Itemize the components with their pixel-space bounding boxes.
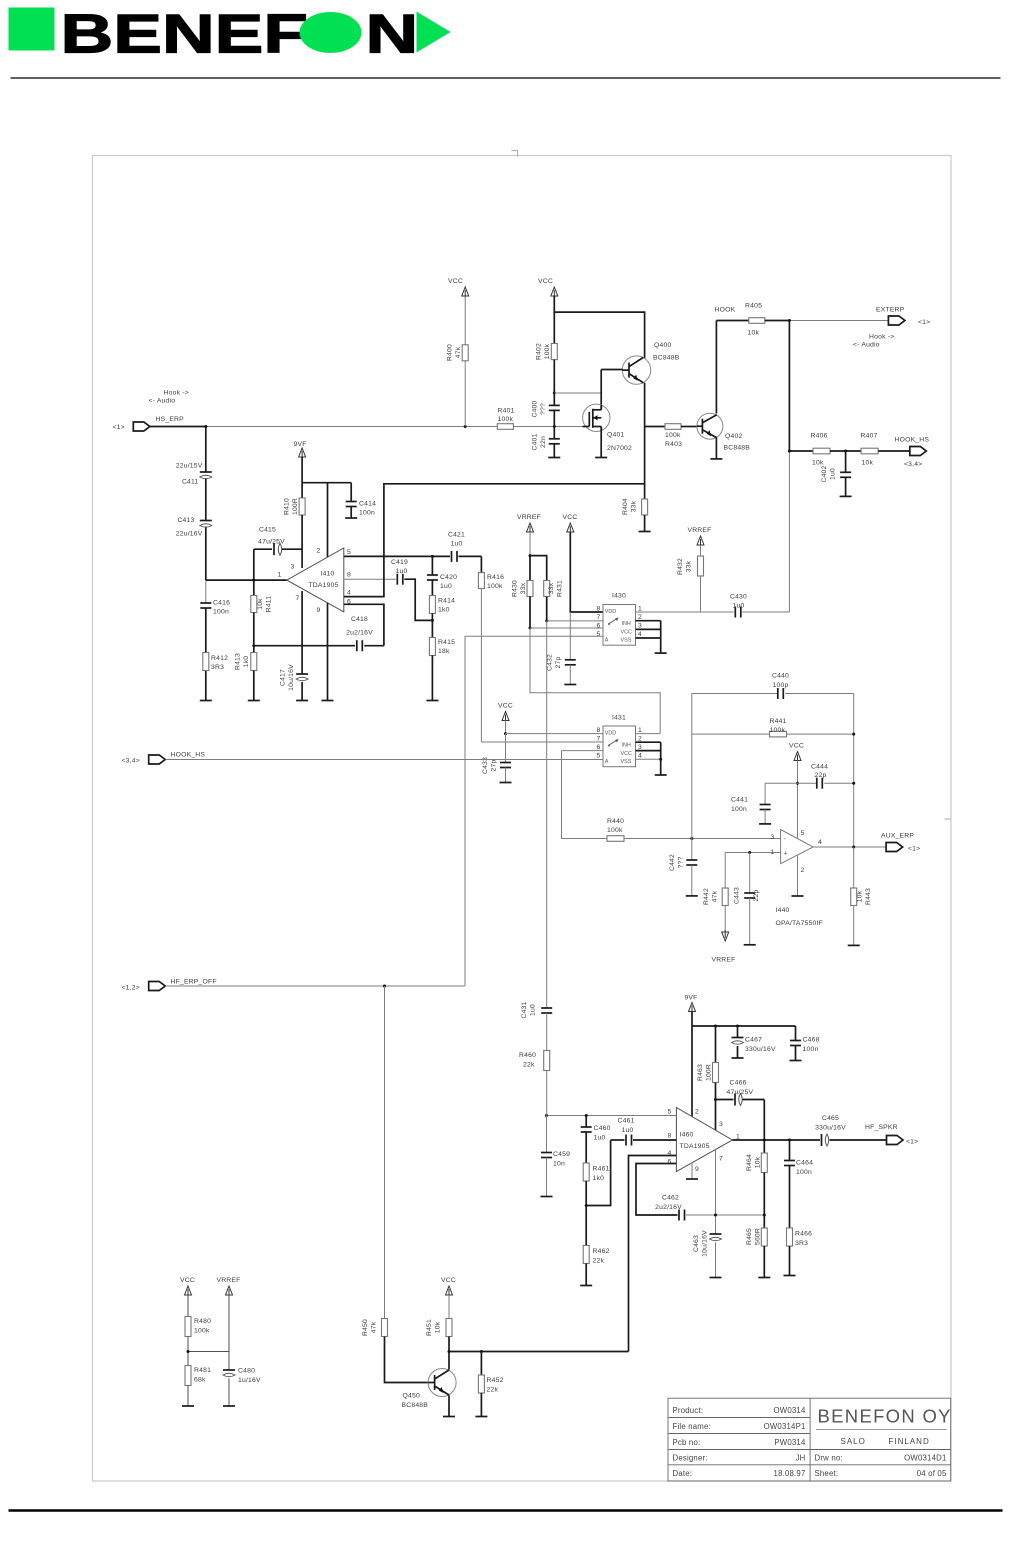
svg-text:SALO: SALO bbox=[841, 1437, 866, 1446]
svg-text:VCC: VCC bbox=[180, 1277, 195, 1284]
svg-text:C465: C465 bbox=[822, 1115, 839, 1122]
capacitor C464 100n bbox=[789, 1140, 791, 1161]
svg-text:C417: C417 bbox=[280, 669, 287, 686]
capacitor C441 100n bbox=[764, 783, 766, 804]
svg-text:100n: 100n bbox=[803, 1046, 819, 1053]
svg-text:C432: C432 bbox=[547, 654, 554, 671]
svg-text:R465: R465 bbox=[746, 1228, 753, 1245]
resistor R401 100k bbox=[497, 424, 513, 430]
svg-text:R462: R462 bbox=[593, 1248, 610, 1255]
analog switch I431 bbox=[603, 726, 636, 767]
svg-text:3R3: 3R3 bbox=[795, 1240, 808, 1247]
svg-text:5: 5 bbox=[801, 830, 805, 837]
svg-text:1u0: 1u0 bbox=[622, 1127, 634, 1134]
svg-text:C418: C418 bbox=[351, 616, 368, 623]
wire 9VF column to I460 pin2 bbox=[691, 1012, 693, 1117]
capacitor C420 1u0 bbox=[431, 556, 433, 575]
svg-text:8: 8 bbox=[597, 727, 601, 734]
wire R480/C480 row bbox=[188, 1351, 229, 1353]
svg-text:560R: 560R bbox=[755, 1228, 762, 1245]
wire jog to R431 bbox=[530, 556, 547, 581]
svg-text:Product:: Product: bbox=[673, 1406, 704, 1415]
svg-text:Hook ->: Hook -> bbox=[869, 334, 894, 341]
svg-text:C442: C442 bbox=[669, 854, 676, 871]
node R414/R415 bbox=[431, 614, 433, 638]
svg-text:R411: R411 bbox=[266, 596, 273, 613]
svg-text:R400: R400 bbox=[447, 344, 454, 361]
svg-text:C401: C401 bbox=[532, 433, 539, 450]
ground T-bar Q402 bbox=[710, 458, 722, 460]
svg-text:I430: I430 bbox=[612, 593, 626, 600]
svg-text:C443: C443 bbox=[734, 887, 741, 904]
wire R431 node down to C431 column bbox=[545, 619, 548, 622]
resistor R411 10k bbox=[253, 580, 255, 595]
wire Q401 source to ground bbox=[600, 428, 602, 458]
svg-text:330u/16V: 330u/16V bbox=[815, 1125, 846, 1132]
wire R450 to Q450 base bbox=[385, 1337, 429, 1383]
svg-text:33k: 33k bbox=[631, 500, 638, 512]
ground T-bar C401 bbox=[548, 457, 560, 459]
svg-text:-: - bbox=[784, 836, 787, 843]
svg-text:<- Audio: <- Audio bbox=[853, 342, 880, 349]
svg-text:1: 1 bbox=[638, 606, 642, 613]
wire R407 to HOOK_HS flag bbox=[878, 450, 910, 452]
svg-text:33k: 33k bbox=[686, 560, 693, 572]
svg-text:Q401: Q401 bbox=[607, 432, 624, 439]
svg-text:3: 3 bbox=[638, 623, 642, 630]
transistor Q400 BC848B bbox=[622, 356, 650, 384]
resistor R400 47k bbox=[464, 296, 466, 345]
svg-text:R466: R466 bbox=[795, 1231, 812, 1238]
wire I431 pin1 up to R430 node bbox=[636, 733, 661, 735]
wire VCC column to I430 VDD bbox=[570, 532, 603, 612]
svg-text:VCC: VCC bbox=[621, 629, 632, 635]
resistor R416 100k bbox=[478, 573, 484, 589]
svg-text:<- Audio: <- Audio bbox=[149, 398, 176, 405]
power VRREF down (R442) bbox=[722, 932, 729, 941]
svg-text:VSS: VSS bbox=[621, 638, 632, 644]
ground T-bar C417 bbox=[296, 700, 308, 702]
wire I430 pin5 from HF_ERP_OFF column bbox=[465, 635, 603, 637]
ground T-bar R452 bbox=[475, 1416, 487, 1418]
svg-text:3: 3 bbox=[291, 564, 295, 571]
svg-text:2u2/16V: 2u2/16V bbox=[346, 630, 373, 637]
svg-text:4: 4 bbox=[638, 753, 642, 760]
svg-text:C414: C414 bbox=[359, 501, 376, 508]
wire I430 pin7 from R431 bbox=[547, 620, 603, 622]
svg-text:A: A bbox=[605, 638, 609, 644]
svg-text:R431: R431 bbox=[557, 580, 564, 597]
svg-text:2: 2 bbox=[317, 548, 321, 555]
wire R402 node to Q401 drain bbox=[554, 392, 601, 394]
svg-text:1u0: 1u0 bbox=[440, 583, 452, 590]
capacitor C402 1u0 bbox=[845, 451, 847, 472]
node C402 bbox=[830, 450, 861, 452]
svg-text:R451: R451 bbox=[426, 1319, 433, 1336]
wire VCC to I431 VDD bbox=[505, 721, 507, 734]
svg-text:OW0314P1: OW0314P1 bbox=[764, 1422, 806, 1431]
wire I431 pins 2,3 to ground bbox=[636, 741, 661, 743]
wire VRREF to divider jog bbox=[529, 532, 531, 556]
transistor Q450 BC848B bbox=[428, 1369, 456, 1397]
svg-text:C411: C411 bbox=[182, 479, 199, 486]
ground T-bar C480 bbox=[223, 1405, 235, 1407]
svg-text:R480: R480 bbox=[194, 1318, 211, 1325]
resistor R407 10k bbox=[861, 448, 878, 454]
svg-text:47k: 47k bbox=[455, 346, 462, 358]
svg-text:100p: 100p bbox=[773, 682, 789, 689]
svg-text:33x: 33x bbox=[520, 582, 527, 594]
svg-text:1: 1 bbox=[638, 727, 642, 734]
svg-text:R461: R461 bbox=[593, 1166, 610, 1173]
svg-text:BC848B: BC848B bbox=[402, 1402, 429, 1409]
svg-text:HOOK_HS: HOOK_HS bbox=[895, 437, 930, 444]
wire I460 pin7 column bbox=[715, 1150, 717, 1235]
wire I460 pin4 to Q450 row bbox=[629, 1156, 677, 1352]
resistor R432 33k bbox=[700, 545, 702, 556]
svg-text:VCC: VCC bbox=[448, 278, 463, 285]
wire C461 drop to R461 node bbox=[586, 1140, 610, 1206]
svg-text:5: 5 bbox=[347, 549, 351, 556]
svg-text:TDA1905: TDA1905 bbox=[308, 582, 338, 589]
ground T-bar (input column) bbox=[200, 700, 212, 702]
resistor R443 10k bbox=[853, 847, 855, 888]
svg-text:10u/16V: 10u/16V bbox=[702, 1230, 709, 1257]
svg-text:10k: 10k bbox=[857, 890, 864, 902]
svg-text:TDA1905: TDA1905 bbox=[680, 1143, 710, 1150]
svg-text:100k: 100k bbox=[607, 827, 623, 834]
svg-text:10k: 10k bbox=[812, 460, 824, 467]
Benefon logo green triangle bbox=[417, 12, 451, 53]
svg-text:<3,4>: <3,4> bbox=[122, 758, 140, 765]
svg-text:R442: R442 bbox=[703, 888, 710, 905]
svg-text:R406: R406 bbox=[811, 433, 828, 440]
resistor R440 100k bbox=[562, 838, 608, 840]
svg-text:22k: 22k bbox=[487, 1387, 499, 1394]
resistor R402 100k bbox=[553, 312, 555, 343]
wire R430 node to I431 pin1 bbox=[529, 627, 532, 630]
svg-text:<1>: <1> bbox=[918, 319, 930, 326]
svg-text:BC848B: BC848B bbox=[724, 445, 751, 452]
svg-text:7: 7 bbox=[597, 614, 601, 621]
svg-text:C466: C466 bbox=[730, 1080, 747, 1087]
capacitor C442 ??? bbox=[691, 839, 693, 861]
svg-text:7: 7 bbox=[597, 736, 601, 743]
resistor R464 10k bbox=[763, 1140, 765, 1153]
svg-text:3: 3 bbox=[719, 1121, 723, 1128]
svg-text:INH: INH bbox=[622, 743, 631, 749]
svg-text:File name:: File name: bbox=[673, 1422, 711, 1431]
svg-text:EXTERP: EXTERP bbox=[876, 307, 905, 314]
wire I460 output row bbox=[732, 1139, 820, 1141]
svg-text:I440: I440 bbox=[776, 907, 790, 914]
title block bbox=[668, 1398, 951, 1481]
resistor R430 33x bbox=[529, 556, 531, 581]
capacitor C468 100n bbox=[795, 1026, 797, 1041]
svg-text:Pcb no:: Pcb no: bbox=[673, 1438, 701, 1447]
port EXTERP <1> bbox=[888, 316, 905, 325]
resistor R465 560R bbox=[761, 1228, 767, 1246]
ground T-bar pin9 bbox=[322, 700, 334, 702]
svg-text:R460: R460 bbox=[519, 1052, 536, 1059]
svg-text:100k: 100k bbox=[770, 727, 786, 734]
svg-text:C430: C430 bbox=[730, 594, 747, 601]
svg-text:R441: R441 bbox=[770, 718, 787, 725]
svg-text:INH: INH bbox=[622, 621, 631, 627]
wire I440 pin1 row bbox=[725, 852, 780, 854]
svg-text:Hook ->: Hook -> bbox=[164, 390, 189, 397]
wire I440 output row bbox=[813, 846, 886, 848]
capacitor C418 2u2/16V bbox=[254, 645, 355, 647]
svg-text:C431: C431 bbox=[521, 1001, 528, 1018]
svg-text:FINLAND: FINLAND bbox=[889, 1437, 930, 1446]
wire HF_ERP_OFF riser bbox=[464, 636, 466, 986]
resistor R451 10k bbox=[448, 1295, 450, 1319]
svg-text:100n: 100n bbox=[213, 609, 229, 616]
svg-text:Q400: Q400 bbox=[654, 342, 671, 349]
svg-text:VRREF: VRREF bbox=[687, 527, 711, 534]
svg-text:2u2/16V: 2u2/16V bbox=[655, 1204, 682, 1211]
ground T-bar R404 bbox=[639, 531, 651, 533]
svg-text:1u0: 1u0 bbox=[830, 468, 837, 480]
resistor R404 33k bbox=[644, 427, 646, 500]
wire I410 pin4 to R404 rail bbox=[344, 484, 645, 597]
svg-text:Drw no:: Drw no: bbox=[815, 1454, 843, 1463]
open T-bar C441 bbox=[759, 823, 771, 825]
ground T-bar R466 bbox=[784, 1275, 796, 1277]
svg-text:47u/25V: 47u/25V bbox=[258, 539, 285, 546]
open T-bar R443 bbox=[848, 944, 860, 946]
wire VRREF column bbox=[228, 1295, 230, 1370]
wire HS_ERP row bbox=[150, 426, 206, 428]
wire C421 to R416 bbox=[480, 556, 482, 572]
wire feedback right column bbox=[853, 694, 855, 848]
wire R416 down to I431 pin7 bbox=[480, 589, 482, 743]
svg-text:100n: 100n bbox=[359, 510, 375, 517]
open T-bar I440 pin2 bbox=[792, 895, 804, 897]
open T-bar C442 bbox=[686, 895, 698, 897]
svg-text:OW0314: OW0314 bbox=[774, 1406, 806, 1415]
svg-text:8: 8 bbox=[597, 606, 601, 613]
svg-text:C415: C415 bbox=[259, 527, 276, 534]
svg-text:VDD: VDD bbox=[605, 731, 616, 737]
svg-text:22p: 22p bbox=[753, 890, 760, 902]
svg-text:A: A bbox=[605, 759, 609, 765]
svg-text:R414: R414 bbox=[438, 598, 455, 605]
svg-text:VCC: VCC bbox=[789, 743, 804, 750]
svg-text:22p: 22p bbox=[815, 772, 827, 779]
svg-text:R440: R440 bbox=[607, 818, 624, 825]
svg-text:9VF: 9VF bbox=[294, 441, 307, 448]
svg-text:VCC: VCC bbox=[563, 514, 578, 521]
capacitor C444 22p bbox=[765, 782, 817, 784]
wire I431 pin4 to ground bbox=[636, 758, 661, 760]
svg-text:C480: C480 bbox=[238, 1368, 255, 1375]
svg-text:10n: 10n bbox=[553, 1161, 565, 1168]
svg-text:Q450: Q450 bbox=[403, 1393, 420, 1400]
svg-text:22n: 22n bbox=[540, 436, 547, 448]
wire I440 pin2 to ground bbox=[797, 856, 799, 897]
svg-text:04 of 05: 04 of 05 bbox=[917, 1469, 947, 1478]
resistor R461 1k0 bbox=[583, 1163, 589, 1181]
svg-text:C463: C463 bbox=[693, 1235, 700, 1252]
node R402/C400 bbox=[553, 392, 556, 395]
svg-text:47u/25V: 47u/25V bbox=[727, 1089, 754, 1096]
svg-text:I431: I431 bbox=[612, 715, 626, 722]
capacitor C433 27p bbox=[505, 734, 507, 763]
ground T-bar C467 bbox=[732, 1057, 744, 1059]
svg-text:VCC: VCC bbox=[621, 751, 632, 757]
capacitor C459 10n bbox=[546, 1116, 548, 1153]
svg-text:100R: 100R bbox=[292, 498, 299, 515]
svg-text:8: 8 bbox=[347, 572, 351, 579]
node pin3/C442 column bbox=[690, 837, 693, 840]
ground T-bar R481 bbox=[182, 1405, 194, 1407]
svg-text:1u0: 1u0 bbox=[733, 603, 745, 610]
top rule bbox=[11, 77, 1001, 79]
svg-text:10k: 10k bbox=[435, 1321, 442, 1333]
wire VCC top rail bbox=[554, 296, 644, 358]
svg-text:R416: R416 bbox=[487, 574, 504, 581]
capacitor C421 1u0 bbox=[451, 551, 453, 562]
svg-text:5: 5 bbox=[668, 1109, 672, 1116]
svg-text:100n: 100n bbox=[796, 1169, 812, 1176]
Benefon logo green square bbox=[9, 8, 55, 51]
svg-text:I460: I460 bbox=[680, 1132, 694, 1139]
ground T-bar R415 bbox=[426, 700, 438, 702]
resistor R441 100k bbox=[692, 733, 770, 735]
open T-bar C433 bbox=[500, 782, 512, 784]
open T-bar C402 bbox=[840, 495, 852, 497]
schematic frame bbox=[93, 156, 952, 1482]
svg-text:1k0: 1k0 bbox=[243, 656, 250, 668]
svg-text:18.08.97: 18.08.97 bbox=[774, 1469, 806, 1478]
svg-text:+: + bbox=[784, 851, 788, 858]
svg-text:1u0: 1u0 bbox=[594, 1135, 606, 1142]
svg-text:R463: R463 bbox=[697, 1064, 704, 1081]
capacitor C414 100n bbox=[350, 483, 352, 502]
ground T-bar Q401 bbox=[595, 457, 607, 459]
svg-text:33x: 33x bbox=[548, 582, 555, 594]
svg-text:R464: R464 bbox=[746, 1154, 753, 1171]
wire Q400 base from Q401 drain bbox=[601, 369, 622, 371]
capacitor C465 330u/16V bbox=[821, 1134, 823, 1146]
capacitor C419 1u0 bbox=[396, 574, 398, 585]
capacitor C401 22n bbox=[549, 438, 560, 440]
svg-text:C416: C416 bbox=[213, 600, 230, 607]
svg-text:7: 7 bbox=[719, 1156, 723, 1163]
svg-text:R410: R410 bbox=[284, 498, 291, 515]
svg-text:1u0: 1u0 bbox=[451, 541, 463, 548]
resistor R403 100k bbox=[645, 426, 665, 428]
svg-text:JH: JH bbox=[796, 1454, 806, 1463]
svg-text:10k: 10k bbox=[257, 598, 264, 610]
svg-text:10k: 10k bbox=[755, 1156, 762, 1168]
wire C415 left drop bbox=[253, 549, 255, 580]
svg-text:68k: 68k bbox=[194, 1377, 206, 1384]
wire HOOK_HS output row bbox=[789, 450, 813, 452]
svg-text:VRREF: VRREF bbox=[517, 514, 541, 521]
svg-text:1k0: 1k0 bbox=[593, 1175, 605, 1182]
svg-text:AUX_ERP: AUX_ERP bbox=[881, 833, 914, 840]
svg-text:BC848B: BC848B bbox=[653, 355, 680, 362]
resistor R412 3R3 bbox=[203, 653, 209, 671]
svg-text:R443: R443 bbox=[865, 888, 872, 905]
svg-text:4: 4 bbox=[638, 631, 642, 638]
resistor R414 1k0 bbox=[429, 596, 435, 614]
svg-text:10u/16V: 10u/16V bbox=[288, 664, 295, 691]
wire I410 pin1 row bbox=[206, 579, 287, 581]
capacitor C460 1u0 bbox=[585, 1116, 587, 1128]
svg-text:R404: R404 bbox=[622, 498, 629, 515]
svg-text:27p: 27p bbox=[491, 760, 498, 772]
wire I430 pin6 from R430 bbox=[530, 627, 603, 629]
svg-text:100k: 100k bbox=[487, 583, 503, 590]
transistor Q401 2N7002 bbox=[600, 393, 602, 409]
svg-text:<1>: <1> bbox=[906, 1139, 918, 1146]
svg-text:100k: 100k bbox=[544, 343, 551, 359]
wire C419 to R414/R415 node bbox=[404, 579, 432, 620]
svg-text:R401: R401 bbox=[498, 408, 515, 415]
capacitor C415 47u/25V bbox=[254, 548, 272, 550]
svg-text:C400: C400 bbox=[532, 400, 539, 417]
svg-text:R481: R481 bbox=[194, 1367, 211, 1374]
svg-text:27p: 27p bbox=[555, 657, 562, 669]
analog switch I430 bbox=[603, 605, 636, 646]
svg-text:???: ??? bbox=[678, 857, 685, 869]
svg-text:VDD: VDD bbox=[605, 609, 616, 615]
svg-text:2N7002: 2N7002 bbox=[607, 445, 632, 452]
svg-text:C468: C468 bbox=[803, 1037, 820, 1044]
wire R410 to pin3 bbox=[301, 515, 303, 568]
open T-bar C459 bbox=[541, 1196, 553, 1198]
wire I410 pin9 to ground bbox=[327, 603, 329, 701]
svg-text:5: 5 bbox=[597, 631, 601, 638]
svg-text:C444: C444 bbox=[811, 764, 828, 771]
svg-text:10k: 10k bbox=[862, 460, 874, 467]
svg-text:22k: 22k bbox=[593, 1258, 605, 1265]
capacitor C413 22u/16V bbox=[200, 520, 212, 522]
wire I430 pin1 to C430 row bbox=[636, 611, 734, 613]
wire I460 pin6 to C462 bbox=[636, 1164, 678, 1216]
port HF_SPKR <1> bbox=[887, 1136, 904, 1145]
svg-text:OW0314D1: OW0314D1 bbox=[904, 1454, 946, 1463]
svg-text:N: N bbox=[366, 3, 419, 64]
ground T-bar Q450 bbox=[443, 1416, 455, 1418]
wire Q400 emitter to main row bbox=[644, 383, 646, 427]
capacitor C432 27p bbox=[569, 612, 571, 660]
svg-text:C441: C441 bbox=[731, 797, 748, 804]
svg-text:R402: R402 bbox=[536, 343, 543, 360]
Benefon logo green O bbox=[300, 12, 362, 53]
svg-text:C461: C461 bbox=[618, 1118, 635, 1125]
wire R405 to EXTERP bbox=[789, 320, 888, 322]
svg-text:HS_ERP: HS_ERP bbox=[156, 416, 185, 423]
resistor R415 18k bbox=[429, 638, 435, 656]
svg-text:VSS: VSS bbox=[621, 759, 632, 765]
svg-text:Date:: Date: bbox=[673, 1469, 693, 1478]
svg-text:22k: 22k bbox=[523, 1062, 535, 1069]
svg-text:47k: 47k bbox=[371, 1321, 378, 1333]
svg-text:C462: C462 bbox=[662, 1195, 679, 1202]
wire Q402 collector bbox=[715, 321, 717, 414]
svg-text:???: ??? bbox=[540, 403, 547, 415]
svg-text:7: 7 bbox=[296, 595, 300, 602]
capacitor C466 47u/25V bbox=[715, 1099, 717, 1101]
capacitor C431 1u0 bbox=[541, 1007, 552, 1009]
wire I430 pins 2,3,4 to ground bbox=[636, 620, 661, 622]
ground T-bar C468 bbox=[790, 1060, 802, 1062]
